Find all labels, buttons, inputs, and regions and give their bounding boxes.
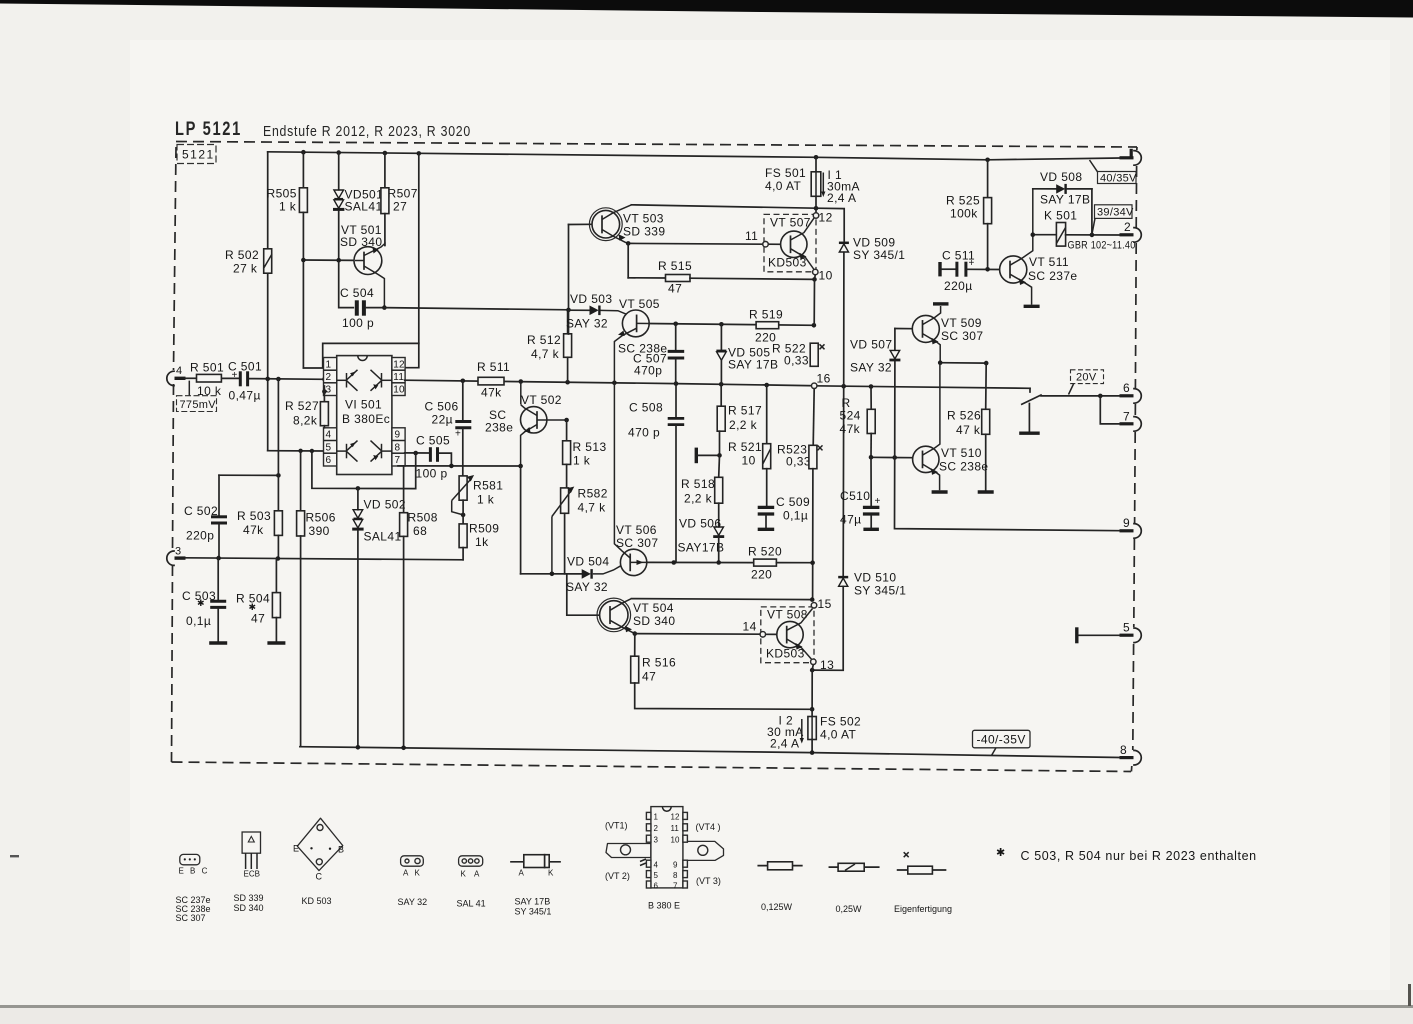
dashed border left xyxy=(174,147,177,370)
resistor R526 xyxy=(947,363,994,492)
svg-text:5: 5 xyxy=(654,871,659,880)
svg-text:5: 5 xyxy=(1123,621,1130,635)
svg-text:C 504: C 504 xyxy=(340,286,374,300)
svg-text:VD 503: VD 503 xyxy=(570,292,612,306)
legend package SC237e/SC238e/SC307 xyxy=(176,854,211,923)
svg-text:4,0 AT: 4,0 AT xyxy=(820,728,856,742)
junction main/VT505 emitter xyxy=(612,381,617,386)
svg-text:K: K xyxy=(415,869,421,878)
diode VD504 SAY32 xyxy=(566,555,621,595)
svg-text:SC 238e: SC 238e xyxy=(939,460,989,474)
svg-text:SD 340: SD 340 xyxy=(633,614,675,628)
fuse FS502 xyxy=(808,715,861,753)
svg-text:220µ: 220µ xyxy=(944,279,973,293)
svg-text:40/35V: 40/35V xyxy=(1100,173,1137,185)
svg-text:10: 10 xyxy=(671,836,680,845)
junction C504/VT501 emitter xyxy=(382,305,387,310)
IC VI501 B380Ec xyxy=(324,356,406,475)
svg-text:+: + xyxy=(875,496,881,507)
svg-text:8: 8 xyxy=(1120,743,1127,757)
junction R582 wiper xyxy=(550,572,555,577)
svg-text:B 380 E: B 380 E xyxy=(648,901,680,911)
svg-text:SAY 17B: SAY 17B xyxy=(728,358,778,372)
svg-text:VT 507: VT 507 xyxy=(770,216,811,230)
svg-text:3: 3 xyxy=(175,546,181,558)
svg-text:47k: 47k xyxy=(481,386,502,400)
svg-text:R506: R506 xyxy=(306,511,336,525)
terminal 7 xyxy=(1120,410,1142,432)
svg-text:1 k: 1 k xyxy=(477,493,495,507)
svg-text:SD 339: SD 339 xyxy=(234,893,264,903)
svg-text:SD 340: SD 340 xyxy=(234,903,264,913)
svg-text:VT 511: VT 511 xyxy=(1029,255,1069,269)
svg-text:VT 505: VT 505 xyxy=(619,297,660,311)
diode VD508 SAY17B xyxy=(1033,170,1092,207)
collector stub bar VT509 xyxy=(933,302,949,305)
svg-text:(VT1): (VT1) xyxy=(605,821,628,831)
svg-text:(VT 2): (VT 2) xyxy=(605,871,630,881)
junction R520/rail xyxy=(810,560,815,565)
label 39/34V box xyxy=(1092,205,1134,233)
capacitor C502 xyxy=(184,475,227,558)
svg-text:✱: ✱ xyxy=(249,602,257,612)
capacitor C506 xyxy=(425,381,472,476)
wire C504 node to VT503 base rail xyxy=(384,308,568,310)
resistor R503 xyxy=(237,379,282,559)
resistor R513 xyxy=(563,420,607,488)
svg-text:11: 11 xyxy=(745,229,758,243)
terminal 4 xyxy=(167,365,186,386)
svg-text:12: 12 xyxy=(671,813,680,822)
svg-text:13: 13 xyxy=(820,658,834,672)
transistor VT501 xyxy=(301,223,385,308)
svg-text:SC 307: SC 307 xyxy=(176,913,206,923)
svg-text:K 501: K 501 xyxy=(1044,209,1077,223)
svg-text:KD503: KD503 xyxy=(766,647,805,661)
svg-text:6: 6 xyxy=(1123,381,1130,395)
resistor R518 xyxy=(681,455,723,526)
resistor R512 xyxy=(527,310,572,382)
svg-text:SAL 41: SAL 41 xyxy=(457,899,486,909)
svg-text:0,25W: 0,25W xyxy=(836,904,863,914)
transistor VT505 xyxy=(601,297,668,383)
page margin arrow mark xyxy=(10,855,19,857)
junction R519/main rail xyxy=(812,323,817,328)
junction rail/R524 xyxy=(869,384,874,389)
svg-text:1 k: 1 k xyxy=(279,200,297,214)
diode VD502 SAL41 xyxy=(352,488,406,747)
node marker overdraw 16 xyxy=(812,383,817,388)
svg-text:R 517: R 517 xyxy=(728,404,762,418)
svg-text:E B C: E B C xyxy=(179,867,210,876)
svg-text:47k: 47k xyxy=(840,422,861,436)
wire VT504 base drop xyxy=(567,574,599,615)
svg-text:R 502: R 502 xyxy=(225,248,259,262)
terminal 8 xyxy=(1120,743,1142,765)
junction rail/diode column VD509 VD510 xyxy=(841,384,846,389)
svg-text:VD 508: VD 508 xyxy=(1040,170,1082,184)
svg-text:SD 340: SD 340 xyxy=(340,235,382,249)
svg-text:11: 11 xyxy=(671,824,680,833)
node marker overdraw 11 xyxy=(763,242,768,247)
junction pin5/488 drop xyxy=(310,449,314,453)
capacitor C509 xyxy=(758,495,810,529)
wire net 9 xyxy=(895,458,1120,531)
wire bottom negative rail xyxy=(300,747,1120,758)
terminal 1 xyxy=(1120,149,1142,165)
svg-text:SY 345/1: SY 345/1 xyxy=(515,907,552,917)
junction main/R521 xyxy=(764,383,769,388)
svg-text:4: 4 xyxy=(326,430,332,441)
svg-text:K: K xyxy=(548,869,554,878)
resistor R520 xyxy=(748,545,813,582)
svg-text:LP 5121: LP 5121 xyxy=(175,119,242,140)
svg-text:2,4 A: 2,4 A xyxy=(827,191,856,205)
label 20V box xyxy=(1069,370,1104,395)
trimmer R582 xyxy=(552,487,608,574)
resistor R508 xyxy=(400,466,438,748)
svg-text:VD 502: VD 502 xyxy=(364,498,406,512)
resistor R506 xyxy=(297,451,336,747)
terminal 6 xyxy=(1120,381,1142,403)
legend package SAY32 xyxy=(398,856,428,907)
svg-text:R 521: R 521 xyxy=(728,440,762,454)
capacitor C508 xyxy=(628,384,684,563)
svg-text:C 509: C 509 xyxy=(776,495,810,509)
junction 488 wire / VD502 xyxy=(356,486,361,491)
svg-text:✱: ✱ xyxy=(197,598,205,608)
wire VT509 emitter to VT510 collector xyxy=(940,362,986,364)
capacitor C505 xyxy=(416,434,451,481)
terminal 3 xyxy=(167,546,186,566)
wire VT504 emitter node 14 xyxy=(633,631,638,636)
resistor R505 xyxy=(267,152,308,368)
svg-text:68: 68 xyxy=(413,524,427,538)
svg-text:SC 307: SC 307 xyxy=(616,536,658,550)
dashed border top xyxy=(176,142,1137,148)
resistor R522 (Eigenfertigung x) xyxy=(772,342,825,368)
svg-text:0,125W: 0,125W xyxy=(761,902,793,912)
svg-text:SY 345/1: SY 345/1 xyxy=(853,248,905,262)
svg-text:220p: 220p xyxy=(186,529,214,543)
node 15 xyxy=(811,597,831,611)
wire pin 7 net xyxy=(398,465,521,467)
label 775mV with pointer xyxy=(177,381,217,412)
note C503 R504 xyxy=(996,847,1257,863)
stub bar R517/R518 junction xyxy=(696,448,722,464)
capacitor C503 xyxy=(182,558,226,641)
svg-text:47k: 47k xyxy=(243,523,264,537)
capacitor C507 xyxy=(633,324,684,384)
junction VT505 net/VD505 xyxy=(719,322,724,327)
junction pin7 net / VT502 emitter xyxy=(518,464,523,469)
svg-text:R 511: R 511 xyxy=(477,360,510,374)
svg-text:(VT4 ): (VT4 ) xyxy=(696,822,721,832)
svg-text:R 519: R 519 xyxy=(749,308,783,322)
svg-text:22µ: 22µ xyxy=(432,413,453,427)
wire diode column VD509-VD510 xyxy=(842,386,845,576)
junction main/R517 xyxy=(719,382,724,387)
svg-text:R582: R582 xyxy=(578,487,608,501)
wire C502 to R503 node xyxy=(219,474,278,476)
svg-text:0,33: 0,33 xyxy=(786,455,811,469)
svg-text:16: 16 xyxy=(817,372,831,386)
svg-text:470 p: 470 p xyxy=(628,426,660,440)
svg-text:SC 237e: SC 237e xyxy=(1028,269,1078,283)
svg-text:0,1µ: 0,1µ xyxy=(186,614,211,628)
svg-text:238e: 238e xyxy=(485,421,513,435)
svg-text:2,2 k: 2,2 k xyxy=(729,418,758,432)
svg-text:FS 502: FS 502 xyxy=(820,715,861,729)
svg-text:VD 510: VD 510 xyxy=(854,571,896,585)
svg-text:R508: R508 xyxy=(408,511,438,525)
svg-text:C 508: C 508 xyxy=(629,401,663,415)
svg-text:SAY 32: SAY 32 xyxy=(398,897,428,907)
svg-text:5: 5 xyxy=(326,442,332,453)
svg-text:KD503: KD503 xyxy=(768,256,807,270)
wire emitter down to R515 xyxy=(627,243,629,277)
switch to terminals 6/7 xyxy=(1019,388,1119,433)
diode VD510 SY345/1 xyxy=(812,571,906,671)
svg-text:C510: C510 xyxy=(840,489,870,503)
svg-text:R581: R581 xyxy=(473,479,503,493)
resistor R509 xyxy=(459,500,499,560)
svg-text:SAY 32: SAY 32 xyxy=(850,361,892,375)
transistor VT502 xyxy=(485,382,567,466)
resistor R501 xyxy=(190,361,224,399)
current arrow I2 xyxy=(767,714,804,751)
svg-text:15: 15 xyxy=(818,597,832,611)
svg-text:SD 339: SD 339 xyxy=(623,225,665,239)
resistor R517 xyxy=(717,384,762,455)
terminal 9 xyxy=(1120,516,1142,538)
transistor VT506 xyxy=(614,383,658,576)
transistor VT504 xyxy=(597,598,675,633)
svg-text:E: E xyxy=(293,844,299,854)
svg-text:100 p: 100 p xyxy=(416,467,448,481)
svg-text:0,1µ: 0,1µ xyxy=(783,509,808,523)
wire pin 5 xyxy=(268,450,324,452)
svg-text:7: 7 xyxy=(673,882,678,891)
svg-text:C 503, R 504 nur bei R 2023 en: C 503, R 504 nur bei R 2023 enthalten xyxy=(1021,849,1257,863)
junction VT502 base / R512 R513 xyxy=(564,418,569,423)
wire top supply bus xyxy=(268,152,1120,160)
svg-text:R 512: R 512 xyxy=(527,333,561,347)
transistor VT510 xyxy=(913,363,989,492)
node 10 xyxy=(812,269,832,283)
page bottom edge line xyxy=(0,1005,1413,1008)
legend package B380E xyxy=(605,807,724,911)
wire VT504 collector to node 15 xyxy=(632,599,813,600)
svg-text:3: 3 xyxy=(326,385,332,396)
svg-text:10: 10 xyxy=(819,269,833,283)
svg-text:10: 10 xyxy=(742,454,756,468)
trimmer R581 xyxy=(452,475,504,517)
svg-text:R 525: R 525 xyxy=(946,194,980,208)
svg-text:A: A xyxy=(519,869,525,878)
svg-text:9: 9 xyxy=(1123,516,1130,530)
node 12 xyxy=(813,211,832,225)
junction net3/R503 R504 xyxy=(276,556,281,561)
svg-text:R 526: R 526 xyxy=(947,409,981,423)
svg-text:47: 47 xyxy=(642,670,656,684)
svg-text:R 520: R 520 xyxy=(748,545,782,559)
svg-text:+: + xyxy=(455,429,461,440)
junction collector wire/fuse column xyxy=(814,206,819,211)
svg-text:VD 507: VD 507 xyxy=(850,338,892,352)
capacitor C504 xyxy=(339,262,385,330)
legend resistor 0,125W xyxy=(758,862,802,912)
svg-text:5121: 5121 xyxy=(182,148,215,162)
wire VT503 collector to fuse node xyxy=(632,205,845,241)
junction bus/R505 xyxy=(301,150,306,155)
svg-text:C 505: C 505 xyxy=(416,434,450,448)
svg-text:VT 503: VT 503 xyxy=(623,212,664,226)
svg-text:12: 12 xyxy=(819,211,833,225)
diode VD507 SAY32 xyxy=(850,329,900,458)
transistor VT503 xyxy=(569,205,666,244)
svg-text:10 k: 10 k xyxy=(197,384,222,398)
dashed border bottom xyxy=(172,762,1132,772)
current arrow I1 xyxy=(821,168,860,205)
node 11 xyxy=(745,229,768,247)
svg-text:3: 3 xyxy=(654,836,659,845)
junction main/C506 xyxy=(461,379,466,384)
wire node10 to R519 rail xyxy=(814,275,815,326)
page top black edge xyxy=(0,0,1413,18)
svg-text:R505: R505 xyxy=(267,187,297,201)
node 14 xyxy=(743,620,766,638)
junction bus/VD501 xyxy=(336,150,341,155)
svg-text:R 518: R 518 xyxy=(681,477,715,491)
wire VD504 net (VT502 emitter to VT506 base) xyxy=(521,573,582,575)
svg-text:+: + xyxy=(969,258,975,269)
capacitor C501 xyxy=(228,360,262,403)
junction bus/pin12 line xyxy=(417,151,422,156)
svg-text:11: 11 xyxy=(393,372,404,383)
diode VD506 SAY17B xyxy=(678,517,725,563)
svg-text:(VT 3): (VT 3) xyxy=(696,876,721,886)
svg-text:R509: R509 xyxy=(469,522,499,536)
junction input/R503 xyxy=(276,377,281,382)
svg-text:20V: 20V xyxy=(1076,372,1097,384)
svg-text:VD 504: VD 504 xyxy=(567,555,609,569)
wire IC lower loop pin5-drop to pin8-drop xyxy=(312,451,416,489)
wire node13 rail down to FS502 xyxy=(812,664,813,716)
svg-text:9: 9 xyxy=(673,861,678,870)
svg-text:R 516: R 516 xyxy=(642,656,676,670)
svg-text:1: 1 xyxy=(326,360,332,371)
svg-text:VT 502: VT 502 xyxy=(521,393,562,407)
svg-text:47 k: 47 k xyxy=(956,423,981,437)
svg-text:2,2 k: 2,2 k xyxy=(684,492,713,506)
wire pin1-pin12 loop xyxy=(303,153,418,368)
svg-text:47: 47 xyxy=(251,612,265,626)
wire C505 right to pin7 net xyxy=(440,453,452,466)
svg-text:A: A xyxy=(403,869,409,878)
junction input/R502 xyxy=(265,377,270,382)
svg-text:Eigenfertigung: Eigenfertigung xyxy=(894,904,952,914)
svg-text:R 515: R 515 xyxy=(658,259,692,273)
svg-text:VT 508: VT 508 xyxy=(767,608,808,622)
wire node16 rail to switch xyxy=(814,386,1030,389)
transistor VT509 xyxy=(895,306,984,363)
junction R503 rail/475 wire xyxy=(276,473,281,478)
svg-text:ECB: ECB xyxy=(244,870,260,879)
capacitor C511 xyxy=(940,249,1000,294)
legend resistor 0,25W xyxy=(829,863,878,914)
junction C511/R525 xyxy=(985,267,990,272)
resistor R507 xyxy=(381,153,418,246)
svg-text:VT 510: VT 510 xyxy=(941,446,982,460)
svg-text:1 k: 1 k xyxy=(573,454,591,468)
svg-text:VT 504: VT 504 xyxy=(633,601,674,615)
junction main/R512 xyxy=(565,380,570,385)
capacitor C510 xyxy=(840,457,881,529)
resistor R521 (0,25W) xyxy=(728,385,771,506)
svg-text:2: 2 xyxy=(1124,220,1131,234)
svg-text:K: K xyxy=(461,870,467,879)
svg-text:SAY 32: SAY 32 xyxy=(566,317,608,331)
svg-text:27: 27 xyxy=(393,200,407,214)
svg-text:0,33: 0,33 xyxy=(784,354,809,368)
node marker overdraw 15 xyxy=(811,603,816,608)
wire input net: terminal4 to IC pins 2/3 xyxy=(185,377,197,379)
junction bus/R525 xyxy=(985,158,990,163)
svg-text:KD 503: KD 503 xyxy=(302,896,332,906)
svg-text:39/34V: 39/34V xyxy=(1097,206,1134,218)
resistor R504 xyxy=(236,559,280,642)
svg-text:VT 506: VT 506 xyxy=(616,523,657,537)
svg-text:8,2k: 8,2k xyxy=(293,414,318,428)
svg-text:1: 1 xyxy=(654,813,659,822)
svg-text:-40/-35V: -40/-35V xyxy=(977,733,1026,747)
wire VD503 net from C504 node (VT503 base rail) xyxy=(568,225,570,335)
svg-text:R507: R507 xyxy=(388,187,418,201)
svg-text:27 k: 27 k xyxy=(233,262,258,276)
svg-text:390: 390 xyxy=(309,524,330,538)
svg-text:SC 307: SC 307 xyxy=(941,329,983,343)
diode VD509 SY345/1 xyxy=(839,236,905,387)
label -40/-35V box xyxy=(973,730,1031,755)
wire IC pins 11/10 to node 16 (main mid rail) xyxy=(405,380,815,386)
legend package SAY17B/SY345-1 xyxy=(511,855,560,917)
svg-text:2,4 A: 2,4 A xyxy=(770,737,799,751)
svg-text:SAY 17B: SAY 17B xyxy=(1040,193,1090,207)
svg-text:SY 345/1: SY 345/1 xyxy=(854,584,906,598)
svg-text:SAY17B: SAY17B xyxy=(678,541,725,555)
svg-text:✱: ✱ xyxy=(996,847,1006,859)
svg-text:47: 47 xyxy=(668,282,682,296)
fuse FS501 xyxy=(765,157,821,214)
transistor VT511 xyxy=(1000,189,1078,306)
junction pin5/R506 xyxy=(298,449,302,453)
wire R525 column down to C511 node xyxy=(987,160,989,198)
svg-text:12: 12 xyxy=(393,360,405,371)
svg-text:4: 4 xyxy=(176,365,182,377)
wire input node down to pin5 wire xyxy=(267,379,269,451)
ground C503 xyxy=(209,641,227,644)
ground R504 xyxy=(267,641,285,644)
terminal 5 xyxy=(1120,621,1142,643)
svg-text:0,47µ: 0,47µ xyxy=(229,389,261,403)
resistor R525 xyxy=(946,194,992,270)
relay K501 xyxy=(1031,189,1136,252)
svg-text:4,7 k: 4,7 k xyxy=(531,347,560,361)
svg-text:775mV: 775mV xyxy=(180,399,217,411)
svg-text:C: C xyxy=(316,872,323,882)
svg-text:47µ: 47µ xyxy=(840,513,861,527)
